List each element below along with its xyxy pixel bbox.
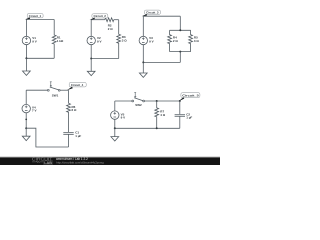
callout Circuit_2 [90, 14, 108, 20]
svg-text:6 Ω: 6 Ω [72, 108, 78, 112]
wire bottom path C4 [26, 128, 68, 147]
svg-text:9 V: 9 V [149, 40, 154, 44]
wire bottom rail C1 [26, 57, 54, 59]
wire ground stem C2 [90, 59, 92, 72]
callout Circuit_1 [25, 14, 43, 20]
svg-text:Circuit_3: Circuit_3 [146, 10, 159, 14]
junction dot C3 [142, 61, 144, 63]
wire top rail C3 [143, 15, 180, 17]
label R4 2Ohm [173, 36, 179, 43]
wire left branch lower C4 [25, 113, 27, 129]
svg-text:Circuit_5: Circuit_5 [182, 93, 199, 97]
ground C1 [23, 71, 31, 75]
svg-text:2 Ω: 2 Ω [173, 39, 179, 43]
junction dot resistor branch top [156, 100, 158, 102]
junction dot cap branch top [179, 100, 181, 102]
voltage source V4 [22, 104, 30, 112]
svg-text:Circuit_1: Circuit_1 [29, 14, 42, 18]
junction dot bottom left C5 [114, 127, 116, 129]
ground C5 [111, 137, 119, 141]
wire feed down from parallel C3 [179, 52, 181, 63]
svg-text:9 V: 9 V [97, 40, 102, 44]
label SW1 [52, 94, 59, 98]
svg-text:1 µF: 1 µF [75, 134, 81, 138]
wire left branch upper C3 [142, 16, 144, 36]
svg-text:LAB: LAB [44, 160, 52, 165]
ground C4 [22, 136, 30, 140]
wire switch to corner C4 [60, 89, 68, 91]
label V3 9V [149, 36, 154, 43]
voltage source V2 [87, 36, 95, 44]
wire left branch upper C4 [25, 90, 27, 105]
switch SW2 [132, 93, 145, 102]
junction dot C2 [90, 58, 92, 60]
label R5 3Ohm [194, 36, 200, 43]
wire left branch lower C1 [25, 45, 27, 59]
label R6 6Ohm [72, 105, 78, 112]
svg-text:1 kΩ: 1 kΩ [57, 39, 64, 43]
wire top sub-rail C3 [170, 29, 191, 31]
voltage source V3 [139, 36, 147, 44]
resistor R1 [52, 20, 56, 59]
label SW2 [135, 103, 142, 107]
svg-text:1 µF: 1 µF [186, 116, 192, 120]
ground C3 [139, 73, 147, 77]
CircuitLab logo LAB [43, 160, 52, 165]
callout Circuit_3 [142, 10, 161, 16]
svg-text:9 V: 9 V [121, 116, 126, 120]
wire bottom rail C3 [143, 61, 180, 63]
wire left branch upper C1 [25, 20, 27, 37]
svg-text:4 Ω: 4 Ω [160, 113, 166, 117]
capacitor C1 [63, 132, 73, 147]
junction dot top sub-rail [179, 29, 181, 31]
wire switch to cap branch C5 [145, 100, 180, 102]
svg-text:SW2: SW2 [135, 103, 142, 107]
wire left branch lower C2 [90, 45, 92, 59]
wire bottom rail C5 [115, 127, 180, 129]
wire top rail left C5 [115, 100, 132, 102]
wire top rail left C4 [26, 89, 47, 91]
resistor R4 (left parallel) [168, 30, 172, 51]
voltage source V1 [22, 36, 30, 44]
wire left branch lower C3 [142, 45, 144, 63]
junction dot bottom resistor C5 [156, 127, 158, 129]
wire left branch upper C5 [114, 101, 116, 111]
label C2 1uF [186, 112, 192, 119]
CircuitLab logo wire+resistor [32, 161, 43, 163]
resistor R3 vertical C2 [117, 20, 121, 59]
svg-text:9 V: 9 V [32, 40, 37, 44]
wire ground stem C3 [142, 62, 144, 73]
svg-text:Circuit_2: Circuit_2 [94, 14, 107, 18]
svg-text:Circuit_4: Circuit_4 [71, 83, 84, 87]
resistor R5 (right parallel) [189, 30, 193, 51]
svg-text:2 Ω: 2 Ω [108, 27, 114, 31]
svg-text:7 V: 7 V [32, 109, 37, 113]
wire ground stem C4 [25, 128, 27, 136]
label R1 1kOhm [57, 36, 64, 43]
wire top rail left C2 [91, 19, 105, 21]
switch SW1 [47, 82, 60, 91]
resistor R6 [67, 103, 71, 132]
resistor R7 [155, 101, 159, 128]
resistor R2 horizontal [105, 18, 114, 22]
label V2 9V [97, 36, 102, 43]
wire left branch lower C5 [114, 119, 116, 128]
capacitor C2 [175, 101, 185, 128]
label R2 2Ohm [108, 24, 114, 31]
wire right branch upper C4 [68, 90, 70, 103]
label V1 9V [32, 36, 37, 43]
svg-text:SW1: SW1 [52, 94, 59, 98]
junction dot C4 [25, 127, 27, 129]
voltage source V5 [111, 111, 119, 119]
junction dot C1 [25, 57, 27, 59]
label C1 1uF [75, 131, 81, 138]
wire ground stem C5 [114, 128, 116, 136]
callout Circuit_4 [67, 83, 86, 91]
svg-text:http://circuitlab.com/c6bsumh4: http://circuitlab.com/c6bsumh4c2pumg [56, 160, 104, 164]
label R7 4Ohm [160, 110, 166, 117]
wire feed down to parallel C3 [179, 16, 181, 30]
junction dot bottom sub-rail [179, 51, 181, 53]
wire top rail right C2 [114, 19, 119, 21]
ground C2 [87, 71, 95, 75]
wire bottom sub-rail C3 [170, 51, 191, 53]
label R3 3Ohm [122, 35, 128, 42]
wire top rail C1 [26, 19, 54, 21]
wire ground stem C1 [25, 58, 27, 71]
label V5 9V [121, 112, 126, 119]
svg-text:3 Ω: 3 Ω [194, 39, 200, 43]
wire left branch upper C2 [90, 20, 92, 37]
svg-text:3 Ω: 3 Ω [122, 39, 128, 43]
label V4 7V [32, 105, 37, 112]
callout Circuit_5 [179, 93, 200, 102]
terminal dot C4 [25, 119, 27, 121]
wire bottom rail C2 [91, 58, 119, 60]
